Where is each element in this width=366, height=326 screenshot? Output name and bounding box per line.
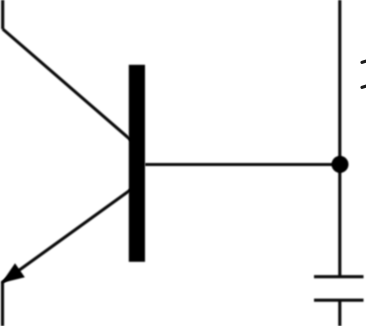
capacitor C1 top plate xyxy=(314,275,364,278)
transistor Q1 base bar xyxy=(129,65,145,262)
wire collector top-left vertical xyxy=(1,0,4,29)
transistor Q1 emitter arrowhead xyxy=(2,263,25,283)
label fragment dash 2 (cut off at right edge) xyxy=(362,86,366,88)
node junction dot xyxy=(332,156,349,173)
capacitor C1 bottom plate xyxy=(314,299,364,302)
wire below capacitor xyxy=(338,300,341,326)
wire base horizontal xyxy=(145,163,340,166)
wire emitter bottom-left vertical xyxy=(1,282,4,326)
wire right vertical xyxy=(338,0,341,277)
label fragment dash 1 (cut off at right edge) xyxy=(362,61,366,63)
wire collector diagonal xyxy=(3,29,132,141)
wire emitter diagonal xyxy=(2,190,131,283)
